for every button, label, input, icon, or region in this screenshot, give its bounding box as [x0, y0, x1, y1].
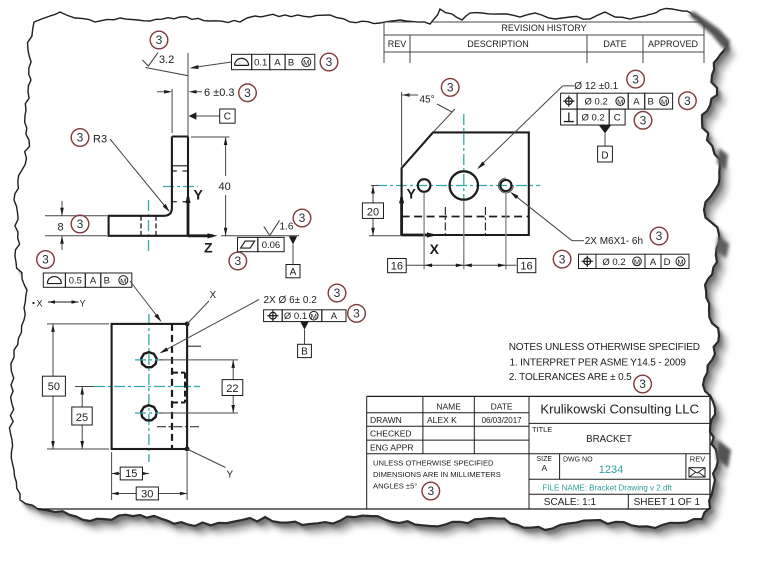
svg-text:NAME: NAME	[436, 402, 461, 412]
svg-text:0.1: 0.1	[254, 57, 267, 68]
svg-text:3: 3	[640, 114, 647, 128]
svg-text:15: 15	[125, 468, 137, 480]
svg-text:Ø 0.2: Ø 0.2	[602, 257, 625, 268]
svg-text:Ø 12 ±0.1: Ø 12 ±0.1	[574, 81, 618, 92]
svg-text:8: 8	[58, 222, 64, 234]
svg-text:DATE: DATE	[491, 402, 513, 412]
svg-text:SHEET 1 OF 1: SHEET 1 OF 1	[634, 497, 701, 508]
svg-text:B: B	[104, 276, 110, 287]
svg-text:Ø 0.2: Ø 0.2	[585, 97, 608, 108]
svg-text:3: 3	[684, 94, 691, 108]
svg-text:40: 40	[219, 181, 231, 193]
svg-text:3: 3	[632, 72, 639, 86]
svg-text:REV: REV	[388, 39, 407, 49]
svg-text:6 ±0.3: 6 ±0.3	[204, 87, 235, 99]
svg-text:0.5: 0.5	[69, 276, 82, 287]
svg-text:20: 20	[367, 206, 379, 218]
svg-text:A: A	[90, 276, 97, 287]
svg-text:SCALE: 1:1: SCALE: 1:1	[544, 497, 597, 508]
svg-text:A: A	[290, 267, 297, 278]
svg-text:Z: Z	[204, 240, 213, 256]
svg-text:M: M	[617, 97, 623, 106]
svg-text:M: M	[120, 276, 126, 285]
svg-text:3: 3	[156, 33, 163, 47]
svg-text:3.2: 3.2	[159, 54, 174, 66]
svg-text:3: 3	[447, 81, 454, 95]
svg-text:ALEX K: ALEX K	[427, 415, 457, 425]
svg-text:A: A	[274, 57, 281, 68]
svg-text:A: A	[541, 463, 547, 473]
svg-text:REVISION HISTORY: REVISION HISTORY	[501, 23, 586, 33]
svg-text:REV: REV	[690, 455, 705, 464]
svg-text:3: 3	[244, 86, 251, 100]
svg-text:2. TOLERANCES ARE ± 0.5: 2. TOLERANCES ARE ± 0.5	[509, 372, 632, 383]
svg-text:45°: 45°	[420, 95, 435, 106]
svg-text:X: X	[37, 299, 43, 309]
svg-text:2X M6X1- 6h: 2X M6X1- 6h	[585, 236, 643, 247]
svg-text:30: 30	[141, 488, 153, 500]
svg-text:Y: Y	[227, 470, 234, 481]
svg-text:NOTES UNLESS OTHERWISE SPECIFI: NOTES UNLESS OTHERWISE SPECIFIED	[509, 342, 700, 353]
svg-text:3: 3	[559, 252, 566, 266]
svg-text:22: 22	[226, 383, 238, 395]
svg-text:3: 3	[326, 55, 333, 69]
svg-text:Ø 0.2: Ø 0.2	[582, 112, 605, 123]
svg-text:Y: Y	[194, 187, 204, 203]
svg-text:1. INTERPRET PER ASME Y14.5 -: 1. INTERPRET PER ASME Y14.5 - 2009	[510, 358, 687, 369]
svg-text:C: C	[614, 112, 621, 123]
svg-text:R3: R3	[93, 134, 107, 146]
svg-text:DRAWN: DRAWN	[370, 415, 402, 425]
svg-text:B: B	[648, 97, 654, 108]
svg-text:A: A	[650, 257, 657, 268]
svg-text:D: D	[601, 150, 608, 161]
svg-text:16: 16	[520, 260, 532, 272]
svg-text:B: B	[301, 347, 308, 358]
svg-text:1.6: 1.6	[280, 222, 294, 233]
svg-text:DESCRIPTION: DESCRIPTION	[467, 39, 529, 49]
svg-text:25: 25	[76, 412, 88, 424]
svg-text:Y: Y	[407, 185, 417, 201]
svg-text:B: B	[288, 57, 294, 68]
svg-text:3: 3	[427, 484, 434, 498]
svg-text:3: 3	[639, 377, 646, 391]
svg-text:TITLE: TITLE	[532, 425, 552, 434]
svg-text:1234: 1234	[599, 464, 623, 476]
svg-text:X: X	[210, 290, 217, 301]
svg-text:FILE NAME: Bracket Drawing v 2: FILE NAME: Bracket Drawing v 2.dft	[543, 484, 673, 493]
svg-text:3: 3	[234, 254, 241, 268]
svg-text:2X Ø 6± 0.2: 2X Ø 6± 0.2	[264, 295, 318, 306]
svg-text:3: 3	[299, 211, 306, 225]
svg-text:Krulikowski Consulting LLC: Krulikowski Consulting LLC	[540, 402, 699, 417]
svg-text:M: M	[677, 258, 683, 267]
svg-text:3: 3	[77, 217, 84, 231]
svg-text:UNLESS OTHERWISE SPECIFIED: UNLESS OTHERWISE SPECIFIED	[373, 459, 494, 468]
svg-text:APPROVED: APPROVED	[648, 39, 699, 49]
svg-text:C: C	[224, 112, 231, 123]
svg-text:3: 3	[42, 253, 49, 267]
svg-text:ENG APPR: ENG APPR	[370, 442, 413, 452]
svg-text:M: M	[311, 312, 317, 321]
svg-text:3: 3	[77, 131, 84, 145]
svg-text:Y: Y	[80, 299, 86, 309]
svg-text:3: 3	[334, 286, 341, 300]
svg-text:DWG NO: DWG NO	[563, 457, 593, 464]
svg-text:M: M	[634, 258, 640, 267]
svg-text:0.06: 0.06	[262, 240, 281, 251]
svg-text:DATE: DATE	[603, 39, 626, 49]
svg-text:D: D	[664, 257, 671, 268]
svg-text:A: A	[331, 311, 338, 322]
svg-text:X: X	[430, 241, 440, 257]
svg-text:06/03/2017: 06/03/2017	[482, 416, 523, 425]
svg-text:M: M	[661, 97, 667, 106]
svg-text:BRACKET: BRACKET	[586, 434, 632, 445]
svg-text:DIMENSIONS ARE IN MILLIMETERS: DIMENSIONS ARE IN MILLIMETERS	[373, 470, 501, 479]
svg-text:M: M	[303, 58, 309, 67]
svg-text:50: 50	[48, 381, 60, 393]
svg-text:3: 3	[353, 307, 360, 321]
svg-text:A: A	[633, 97, 640, 108]
svg-text:Ø 0.1: Ø 0.1	[284, 311, 307, 322]
svg-text:3: 3	[656, 229, 663, 243]
svg-text:CHECKED: CHECKED	[370, 429, 412, 439]
svg-text:ANGLES ±5°: ANGLES ±5°	[373, 482, 417, 491]
svg-text:16: 16	[391, 260, 403, 272]
